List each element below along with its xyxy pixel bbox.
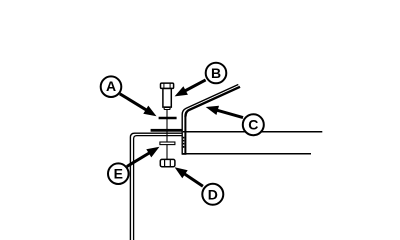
- bolt body: [163, 88, 171, 107]
- arrow D shaft: [182, 173, 203, 187]
- frame rail top edge (right side): [183, 131, 322, 133]
- bolt thread tip: [164, 108, 170, 110]
- arrow C head: [206, 106, 219, 115]
- callout circle E: [108, 163, 129, 184]
- arrow A head: [143, 106, 156, 117]
- lower washer: [160, 142, 175, 145]
- svg-text:A: A: [106, 78, 116, 94]
- svg-text:C: C: [248, 117, 258, 133]
- callout circle B: [206, 63, 227, 84]
- svg-text:B: B: [211, 65, 221, 81]
- bolt head facet lines: [164, 83, 170, 88]
- hex nut facet lines: [165, 160, 171, 167]
- svg-text:D: D: [208, 186, 218, 202]
- bent flange thick diagonal: [186, 87, 241, 117]
- bolt shank line: [166, 109, 168, 159]
- channel bracket outer surface (left, rounded corner): [130, 133, 182, 240]
- arrow A shaft: [120, 94, 149, 112]
- channel bracket inner surface: [134, 136, 183, 240]
- arrow E head: [146, 147, 159, 158]
- svg-text:E: E: [114, 166, 123, 182]
- arrow C shaft: [215, 110, 243, 118]
- callout circle A: [101, 76, 122, 97]
- bent flange vertical outer line: [182, 85, 238, 155]
- hex nut: [160, 159, 175, 166]
- spacer plate body: [151, 129, 183, 132]
- callout circle C: [243, 114, 264, 135]
- arrow B head: [175, 86, 188, 96]
- arrow E shaft: [127, 152, 152, 167]
- bent flange vertical inner line: [184, 116, 186, 154]
- bolt head: [161, 83, 174, 88]
- flange bottom cap: [182, 153, 187, 155]
- flange hidden hole dotted line: [183, 137, 184, 139]
- callout circle D: [202, 184, 223, 205]
- frame rail bottom edge (right side): [183, 153, 311, 155]
- arrow D head: [175, 167, 188, 178]
- upper washer: [159, 117, 177, 119]
- arrow B shaft: [183, 80, 206, 92]
